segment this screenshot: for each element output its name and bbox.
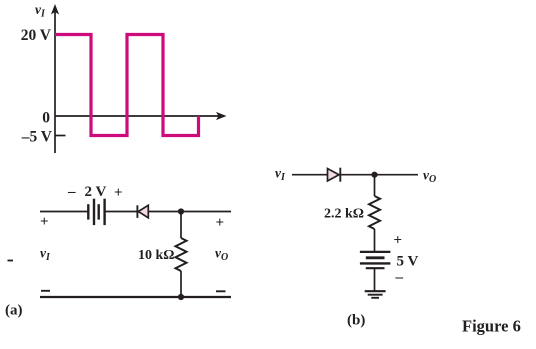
- svg-text:Figure 6: Figure 6: [462, 317, 521, 336]
- wire node to resistor (b): [374, 175, 376, 196]
- svg-text:+: +: [216, 215, 225, 231]
- svg-text:5 V: 5 V: [397, 254, 419, 270]
- svg-text:–5 V: –5 V: [21, 129, 53, 146]
- wire battery to ground (b): [374, 268, 376, 291]
- node bottom (a): [178, 294, 184, 300]
- wire node to resistor (a): [180, 212, 182, 239]
- wire resistor to battery (b): [374, 229, 376, 252]
- svg-text:10 kΩ: 10 kΩ: [138, 248, 175, 263]
- svg-text:vI: vI: [40, 246, 51, 264]
- resistor 10k zigzag (a): [176, 238, 187, 271]
- bottom wire (a): [40, 296, 231, 298]
- label - right (a): [216, 290, 226, 292]
- wire top-left (a): [40, 211, 88, 213]
- waveform y-axis arrowhead: [51, 4, 59, 15]
- resistor 2.2k zigzag (b): [369, 196, 380, 229]
- wire left (b): [292, 174, 328, 176]
- diode D (b), pointing right: [328, 169, 340, 182]
- svg-text:vO: vO: [423, 168, 436, 186]
- ground symbol: [365, 291, 386, 298]
- svg-text:20 V: 20 V: [21, 27, 52, 44]
- svg-text:vO: vO: [215, 246, 228, 264]
- label - left (a): [41, 290, 50, 292]
- waveform x-axis: [55, 115, 219, 117]
- svg-text:+: +: [40, 214, 49, 230]
- svg-text:vI: vI: [275, 166, 286, 184]
- battery 5V plates: [360, 252, 391, 268]
- wire resistor to bottom (a): [180, 271, 182, 297]
- svg-text:(b): (b): [347, 313, 365, 329]
- svg-text:vI: vI: [35, 2, 46, 20]
- svg-text:2.2 kΩ: 2.2 kΩ: [324, 207, 364, 222]
- tick at -5V: [55, 135, 66, 137]
- node (b): [371, 172, 377, 178]
- svg-text:–: –: [395, 270, 404, 286]
- waveform y-axis: [54, 10, 56, 153]
- svg-text:2 V: 2 V: [85, 184, 107, 200]
- svg-text:(a): (a): [5, 303, 23, 319]
- diode D (a), pointing left: [136, 205, 138, 218]
- waveform x-axis arrowhead: [216, 112, 227, 120]
- svg-text:+: +: [114, 185, 123, 201]
- svg-text:+: +: [394, 233, 403, 249]
- battery 2V plates: [88, 199, 104, 225]
- wire diode to right (b): [340, 174, 418, 176]
- square wave vI: [55, 35, 199, 136]
- wire diode to right (a): [148, 211, 231, 213]
- wire battery to diode (a): [105, 211, 137, 213]
- svg-text:0: 0: [42, 110, 50, 127]
- node top (a): [178, 208, 184, 214]
- svg-text:–: –: [67, 184, 76, 200]
- stray dash left margin: [8, 260, 14, 262]
